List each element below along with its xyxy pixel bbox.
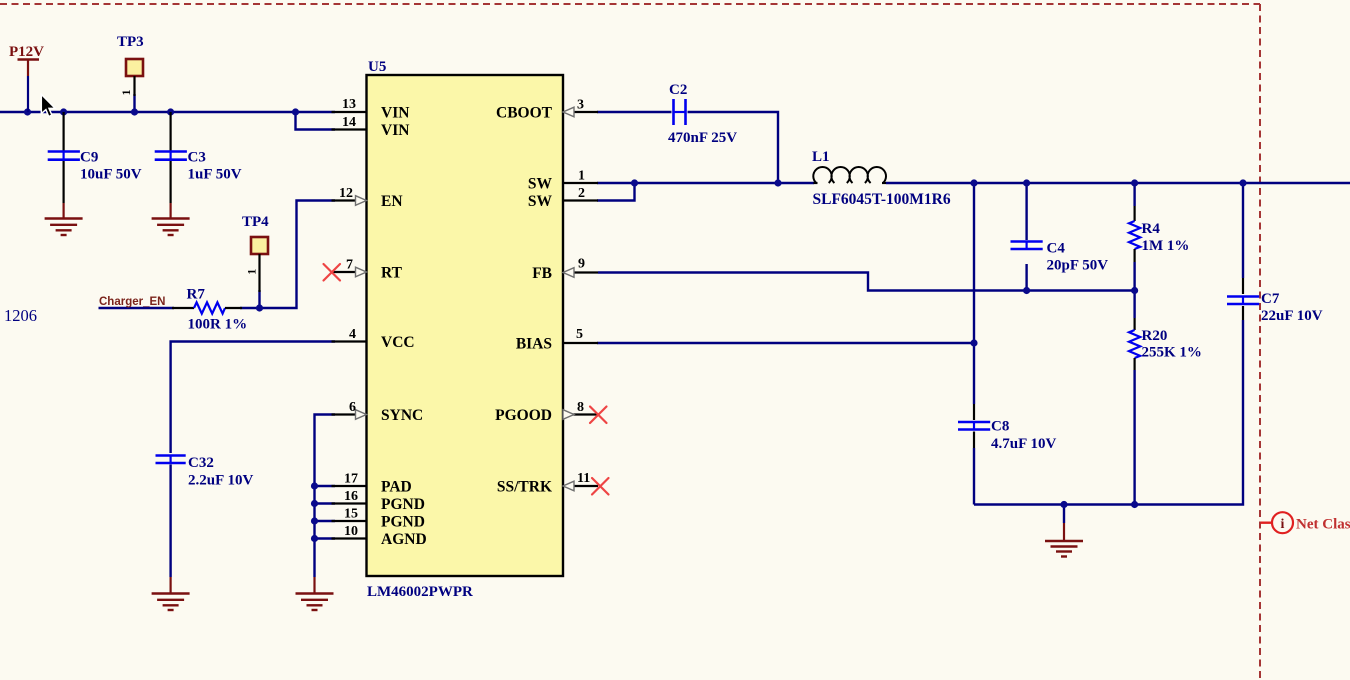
capacitor C3	[155, 112, 242, 203]
svg-text:1uF 50V: 1uF 50V	[188, 167, 242, 183]
pin 12 input arrow	[356, 196, 367, 206]
svg-text:11: 11	[577, 471, 590, 486]
node R4-FB junction	[1131, 287, 1138, 294]
wire TP3 stub	[133, 94, 135, 112]
svg-text:i: i	[1281, 517, 1285, 532]
wire C32 to ground	[169, 465, 171, 578]
wire C7 branch upper	[1242, 183, 1244, 278]
wire C4 branch upper	[1025, 183, 1027, 240]
node TP3 junction	[131, 108, 138, 115]
svg-text:PGND: PGND	[381, 514, 425, 531]
wire ground stub bottom right	[1063, 505, 1065, 524]
svg-text:10uF 50V: 10uF 50V	[80, 167, 142, 183]
svg-text:RT: RT	[381, 265, 403, 282]
svg-text:3: 3	[577, 98, 584, 113]
wire R4 branch upper	[1133, 183, 1135, 206]
wire BIAS run	[597, 342, 974, 344]
svg-text:20pF 50V: 20pF 50V	[1047, 258, 1109, 274]
svg-text:CBOOT: CBOOT	[496, 105, 553, 122]
svg-text:TP3: TP3	[117, 34, 144, 50]
pin 9 input arrow	[563, 268, 574, 278]
svg-text:P12V: P12V	[9, 44, 44, 60]
node SYNC-AGND junction	[311, 535, 318, 542]
node L1 out junction	[970, 179, 977, 186]
node R20 bottom junction	[1131, 501, 1138, 508]
svg-text:1: 1	[578, 169, 585, 184]
svg-text:13: 13	[342, 97, 356, 112]
wire SW2 join	[597, 183, 635, 201]
svg-text:VIN: VIN	[381, 122, 409, 139]
inductor L1	[812, 149, 951, 208]
capacitor C8	[958, 404, 1056, 452]
wire vertical x974 upper	[973, 183, 975, 404]
resistor R20	[1129, 318, 1202, 370]
node R4 top junction	[1131, 179, 1138, 186]
svg-text:6: 6	[349, 400, 356, 415]
svg-text:PAD: PAD	[381, 479, 412, 496]
node TP4 junction	[256, 304, 263, 311]
node C4 top junction	[1023, 179, 1030, 186]
pin 8 PGOOD	[563, 413, 598, 415]
svg-text:5: 5	[576, 327, 583, 342]
capacitor C32	[156, 455, 254, 489]
svg-text:TP4: TP4	[242, 214, 269, 230]
test point TP3	[117, 34, 144, 96]
capacitor C2	[668, 82, 737, 146]
sheet border dashed top	[0, 3, 1260, 5]
svg-text:100R 1%: 100R 1%	[188, 317, 248, 333]
wire C4 branch lower	[1025, 264, 1027, 291]
svg-text:4.7uF 10V: 4.7uF 10V	[991, 436, 1056, 452]
svg-text:1206: 1206	[4, 306, 37, 325]
svg-text:14: 14	[342, 115, 356, 130]
wire C2 to SW net	[688, 112, 779, 183]
node SYNC-PAD junction	[311, 482, 318, 489]
pin 12 EN	[332, 199, 367, 201]
resistor R7	[172, 287, 247, 333]
resistor R4	[1129, 206, 1189, 262]
svg-text:8: 8	[577, 400, 584, 415]
svg-text:R4: R4	[1142, 221, 1161, 237]
wire SYNC vertical	[315, 415, 336, 578]
svg-text:LM46002PWPR: LM46002PWPR	[367, 584, 473, 600]
wire vertical x974 lower	[973, 448, 975, 505]
pin 13 VIN	[332, 111, 367, 113]
svg-text:16: 16	[344, 489, 358, 504]
svg-text:255K 1%: 255K 1%	[1142, 345, 1202, 361]
wire PGND15 stub	[315, 520, 336, 522]
wire R20 lower	[1133, 370, 1135, 505]
no-connect X pin 11	[592, 478, 609, 495]
node VIN branch junction	[292, 108, 299, 115]
pin 1 SW	[563, 182, 598, 184]
pin 9 FB	[563, 271, 598, 273]
pin 11 SS/TRK	[563, 485, 598, 487]
wire R4-R20 middle	[1133, 262, 1135, 318]
svg-text:470nF 25V: 470nF 25V	[668, 130, 737, 146]
svg-text:10: 10	[344, 524, 358, 539]
pin 6 input arrow	[356, 410, 367, 420]
svg-text:C8: C8	[991, 419, 1009, 435]
wire VCC to C32	[171, 342, 335, 454]
wire PAD stub	[315, 485, 336, 487]
wire CBOOT to C2	[597, 111, 672, 113]
sheet border dashed right	[1259, 4, 1261, 680]
ground for C9	[45, 203, 83, 235]
node C4-FB junction	[1023, 287, 1030, 294]
ground for C3	[152, 203, 190, 235]
wire C7 branch lower	[974, 320, 1243, 505]
node C7 top junction	[1239, 179, 1246, 186]
Net Class directive	[1261, 512, 1350, 533]
svg-text:SYNC: SYNC	[381, 407, 423, 424]
wire L1 to right edge	[886, 182, 1350, 184]
node C3 junction	[167, 108, 174, 115]
svg-text:EN: EN	[381, 193, 403, 210]
svg-text:1: 1	[119, 90, 133, 96]
svg-text:VCC: VCC	[381, 334, 415, 351]
svg-text:C32: C32	[188, 455, 214, 471]
wire TP4 stub	[258, 290, 260, 308]
svg-text:15: 15	[344, 507, 358, 522]
svg-text:FB: FB	[532, 265, 552, 282]
op-amp U5 body LM46002PWPR	[367, 59, 564, 600]
pin 14 VIN	[332, 128, 367, 130]
svg-text:SW: SW	[528, 193, 553, 210]
no-connect X pin 8	[590, 407, 607, 424]
wire main P12V rail	[0, 111, 335, 113]
node ground bottom junction	[1060, 501, 1067, 508]
node SW2 junction	[631, 179, 638, 186]
svg-text:U5: U5	[368, 59, 386, 75]
pin 8 output arrow	[563, 410, 574, 420]
svg-text:C9: C9	[80, 150, 98, 166]
svg-text:1: 1	[245, 269, 259, 275]
svg-text:BIAS: BIAS	[516, 336, 552, 353]
node SYNC-PGND16 junction	[311, 500, 318, 507]
svg-text:17: 17	[344, 472, 358, 487]
wire SW1 to L1	[597, 182, 814, 184]
node P12V junction	[24, 108, 31, 115]
svg-text:7: 7	[346, 258, 353, 273]
wire PGND16 stub	[315, 502, 336, 504]
svg-text:R7: R7	[187, 287, 206, 303]
wire FB run	[598, 273, 1135, 291]
pin 10 AGND	[332, 537, 367, 539]
pin 7 input arrow	[356, 267, 367, 277]
node C9 junction	[60, 108, 67, 115]
test point TP4	[242, 214, 269, 292]
mouse cursor	[41, 94, 55, 116]
svg-text:C7: C7	[1261, 291, 1280, 307]
no-connect X pin 7	[324, 264, 341, 281]
pin 11 input arrow	[563, 481, 574, 491]
svg-text:C4: C4	[1047, 241, 1066, 257]
svg-text:12: 12	[339, 186, 353, 201]
svg-text:AGND: AGND	[381, 531, 427, 548]
svg-text:22uF 10V: 22uF 10V	[1261, 308, 1323, 324]
wire R7 to EN pin	[240, 201, 335, 309]
svg-text:2.2uF 10V: 2.2uF 10V	[188, 473, 253, 489]
capacitor C9	[48, 112, 142, 203]
svg-text:PGOOD: PGOOD	[495, 407, 552, 424]
svg-text:VIN: VIN	[381, 105, 409, 122]
pin 17 PAD	[332, 485, 367, 487]
svg-text:9: 9	[578, 257, 585, 272]
wire VIN14 branch	[296, 112, 336, 130]
svg-text:SS/TRK: SS/TRK	[497, 479, 552, 496]
pin 15 PGND	[332, 520, 367, 522]
svg-text:L1: L1	[812, 149, 830, 165]
pin 7 RT	[332, 271, 367, 273]
svg-text:1M 1%: 1M 1%	[1142, 238, 1190, 254]
svg-text:2: 2	[578, 186, 585, 201]
pin 4 VCC	[332, 340, 367, 342]
pin 2 SW	[563, 199, 598, 201]
node C2-SW junction	[774, 179, 781, 186]
pin 16 PGND	[332, 502, 367, 504]
svg-text:C2: C2	[669, 82, 687, 98]
pin 3 CBOOT	[563, 111, 598, 113]
svg-text:C3: C3	[188, 150, 206, 166]
node BIAS junction	[970, 339, 977, 346]
svg-text:R20: R20	[1142, 328, 1168, 344]
ground for C32	[152, 577, 190, 610]
ground for PGND	[296, 577, 334, 610]
power port P12V	[9, 44, 44, 112]
ground bottom right	[1045, 523, 1083, 557]
pin 6 SYNC	[332, 413, 367, 415]
svg-text:SW: SW	[528, 176, 553, 193]
svg-text:PGND: PGND	[381, 496, 425, 513]
wire Charger_EN to R7	[99, 307, 175, 309]
node SYNC-PGND15 junction	[311, 517, 318, 524]
capacitor C7	[1227, 278, 1323, 324]
capacitor C4	[1011, 241, 1109, 274]
svg-text:SLF6045T-100M1R6: SLF6045T-100M1R6	[813, 191, 951, 208]
svg-text:Net Class: Net Class	[1296, 517, 1350, 533]
svg-text:4: 4	[349, 327, 356, 342]
svg-text:Charger_EN: Charger_EN	[99, 296, 165, 308]
pin 3 input arrow	[563, 107, 574, 117]
wire AGND stub	[315, 537, 336, 539]
pin 5 BIAS	[563, 342, 598, 344]
